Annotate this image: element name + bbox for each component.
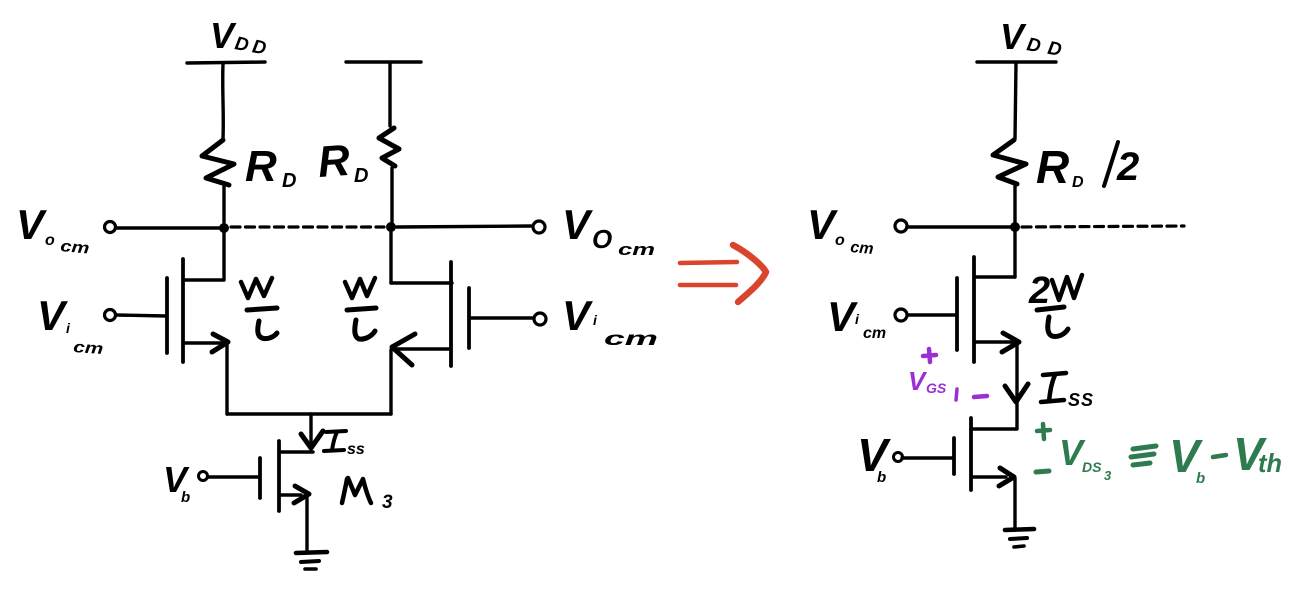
svg-text:3: 3 <box>1104 468 1112 483</box>
svg-text:o: o <box>45 232 55 249</box>
svg-text:b: b <box>181 489 190 506</box>
svg-text:R: R <box>245 142 277 191</box>
svg-text:cm: cm <box>850 239 875 258</box>
svg-text:ss: ss <box>347 441 365 458</box>
svg-text:i: i <box>66 320 71 336</box>
svg-text:cm: cm <box>604 329 658 350</box>
svg-text:D: D <box>354 165 368 187</box>
svg-text:V: V <box>807 201 838 248</box>
svg-text:2: 2 <box>1116 145 1139 189</box>
svg-text:DD: DD <box>233 33 272 60</box>
svg-text:cm: cm <box>73 339 104 358</box>
svg-text:i: i <box>593 312 598 328</box>
svg-text:R: R <box>1036 141 1069 193</box>
svg-text:2: 2 <box>1028 270 1050 312</box>
svg-text:i: i <box>855 311 860 327</box>
svg-text:V: V <box>16 201 47 248</box>
svg-text:D: D <box>1072 174 1084 191</box>
svg-text:SS: SS <box>1068 390 1094 410</box>
svg-text:3: 3 <box>382 492 393 513</box>
svg-text:cm: cm <box>618 240 655 259</box>
svg-text:b: b <box>1196 470 1205 487</box>
svg-text:V: V <box>37 292 68 339</box>
svg-text:V: V <box>1000 16 1027 57</box>
svg-text:V: V <box>908 366 928 396</box>
svg-text:th: th <box>1258 448 1282 478</box>
svg-text:cm: cm <box>863 325 886 342</box>
svg-text:o: o <box>835 232 845 249</box>
svg-text:b: b <box>877 469 886 486</box>
svg-text:R: R <box>316 136 351 187</box>
svg-text:O: O <box>592 224 612 254</box>
svg-text:V: V <box>562 201 593 248</box>
svg-text:V: V <box>562 292 593 339</box>
svg-text:V: V <box>827 293 858 340</box>
svg-text:GS: GS <box>926 380 947 396</box>
svg-text:D: D <box>282 170 296 192</box>
svg-text:cm: cm <box>60 238 90 257</box>
svg-text:DS: DS <box>1082 459 1102 475</box>
svg-text:DD: DD <box>1025 34 1070 62</box>
